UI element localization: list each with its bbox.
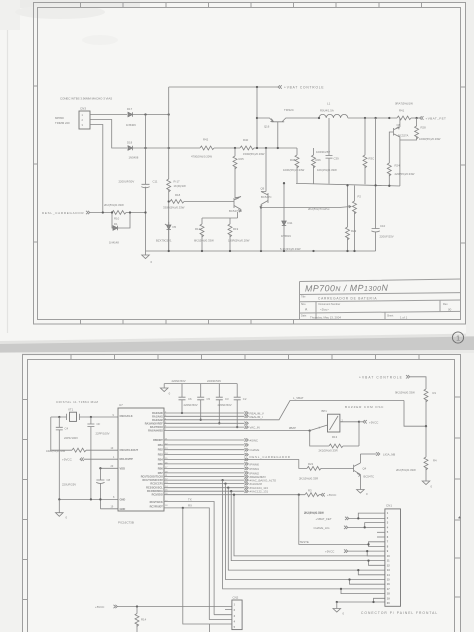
wire R10 to V1 [126, 212, 146, 214]
svg-text:+VBAT CONTROLE: +VBAT CONTROLE [359, 375, 403, 379]
wire Q9 emitter to rail [260, 207, 262, 251]
svg-text:RB6: RB6 [158, 467, 164, 470]
node jog 15 [348, 578, 350, 580]
svg-text:R25: R25 [239, 157, 245, 161]
svg-text:CONEC WTBS 3.96MM MACHO 3 VIAS: CONEC WTBS 3.96MM MACHO 3 VIAS [60, 97, 112, 101]
wire crystal loop left [51, 417, 72, 450]
wire RB6 flag IPWM1 [164, 467, 245, 469]
svg-text:220NF/50V: 220NF/50V [207, 379, 221, 383]
svg-text:RB0/INT: RB0/INT [153, 439, 163, 442]
resistor R17 [167, 179, 186, 192]
wire mid row to trimpot [261, 207, 339, 209]
wire node to R4 [425, 426, 427, 457]
wire Q5 emitter down [237, 212, 239, 218]
svg-text:220UF/25V: 220UF/25V [62, 483, 76, 487]
node x375.6 [374, 117, 376, 119]
wire Q4 collector to flag LIGA_NB [360, 452, 395, 456]
svg-text:22R(5%)/0.33W: 22R(5%)/0.33W [395, 172, 415, 176]
svg-text:R14: R14 [141, 618, 147, 622]
node 257/118 [256, 117, 258, 119]
svg-text:CHAVE: CHAVE [250, 448, 260, 452]
buzzer BP1 [319, 405, 385, 432]
svg-text:TX: TX [188, 497, 192, 501]
wire RC1 flag VAC_BAIXO_ALTO [164, 479, 245, 481]
wire top bus to +VBAT CONTROLE [169, 86, 278, 88]
svg-text:220NF/50V: 220NF/50V [172, 379, 186, 383]
svg-text:150R(5%)/0.33W: 150R(5%)/0.33W [243, 152, 265, 156]
svg-text:RC6/TX/CK: RC6/TX/CK [150, 501, 163, 504]
svg-text:C8: C8 [107, 478, 111, 482]
wire RC7 RX [164, 504, 209, 620]
node R1/R4 [425, 425, 427, 427]
svg-text:R1: R1 [433, 391, 437, 395]
ground rail page1 [146, 250, 376, 252]
svg-text:C39: C39 [334, 157, 340, 161]
svg-text:R3: R3 [308, 489, 312, 493]
node VDD [99, 467, 101, 469]
diode D17 [126, 107, 136, 127]
svg-text:R38: R38 [290, 158, 296, 162]
svg-text:BC547C: BC547C [261, 195, 272, 199]
svg-text:100R(5%)/0.33W: 100R(5%)/0.33W [419, 137, 441, 141]
wire RA4 to flag VAC_IN [164, 425, 260, 429]
rail nodes [58, 498, 101, 500]
svg-text:PIC16C73B: PIC16C73B [118, 521, 134, 525]
resistor R1 [395, 389, 437, 402]
wire RB3 flag [164, 454, 245, 456]
node crystal left [58, 416, 60, 418]
svg-text:+5VCC: +5VCC [369, 420, 378, 424]
svg-text:Title: Title [301, 296, 306, 299]
node TESTE branch [298, 494, 300, 496]
resistor R3 [304, 489, 324, 516]
svg-text:1N5408: 1N5408 [129, 156, 139, 160]
flag +VBAT_FET to CN1 [316, 513, 385, 521]
resistor R4 [396, 457, 437, 472]
node C6/RA0 [181, 412, 183, 414]
svg-text:2K2(5%)/0.33W: 2K2(5%)/0.33W [396, 468, 416, 472]
node jog 11 [367, 559, 369, 561]
stub CN1 pin6 [377, 536, 385, 538]
capacitor C8 [62, 468, 111, 509]
wire RX into CN2 [209, 619, 232, 621]
svg-text:330R(5%)/0.33W: 330R(5%)/0.33W [163, 206, 185, 210]
svg-text:GND: GND [120, 497, 126, 501]
flag +VBAT CONTROLE page2 [359, 375, 410, 379]
svg-text:00: 00 [448, 308, 452, 312]
resistor R14 [135, 607, 147, 632]
wire GND2 row [100, 508, 118, 510]
svg-text:4700(5%)/0.20W: 4700(5%)/0.20W [191, 155, 212, 159]
transistor Q5 [229, 196, 241, 213]
svg-text:100K(5%)/0.33W: 100K(5%)/0.33W [283, 168, 305, 172]
node C39 top [318, 117, 320, 119]
svg-text:VDD: VDD [120, 466, 126, 470]
wire RA0 to flag REALIM_V [164, 411, 264, 415]
svg-text:R29: R29 [351, 229, 357, 233]
svg-text:MP800: MP800 [55, 116, 64, 120]
svg-text:BC547C: BC547C [364, 475, 375, 479]
wire RB2 flag CHAVE [164, 449, 245, 451]
svg-text:D18: D18 [127, 141, 133, 145]
bus vertical 2 to CN1 pins 15/16 [226, 484, 385, 585]
border zone ticks right [455, 397, 461, 597]
resistor R42 [191, 138, 214, 159]
wire CN2 pin5 stub [183, 508, 232, 632]
flag DESL_CARREGADOR [42, 211, 90, 215]
svg-text:RA3/AN3/VREF: RA3/AN3/VREF [145, 422, 164, 425]
node C2/RA4 [236, 426, 238, 428]
node ground drop pin20 [336, 601, 338, 603]
svg-text:RB7: RB7 [158, 472, 164, 475]
svg-text:Thursday, May 13, 2004: Thursday, May 13, 2004 [310, 316, 341, 320]
svg-text:D17: D17 [127, 107, 133, 111]
wire emitter row [202, 217, 238, 219]
capacitor C39 [316, 150, 339, 172]
svg-text:CN3: CN3 [80, 107, 86, 111]
wire flag to R1 [410, 377, 426, 389]
svg-text:+VBAT_FET: +VBAT_FET [426, 117, 447, 121]
wire R42 to R25 node [214, 147, 240, 149]
wire buzzer right lead [340, 421, 359, 423]
svg-text:R40: R40 [243, 138, 249, 142]
svg-text:2K2(5%)/0.33R: 2K2(5%)/0.33R [319, 449, 338, 453]
wire RB5 flag IPWM0 [164, 463, 245, 465]
svg-text:#BZP: #BZP [289, 426, 296, 430]
svg-text:R28: R28 [421, 126, 427, 130]
wire R25 to R38 [254, 147, 297, 149]
RC flag rows with bus taps [164, 475, 277, 494]
svg-text:2K2(5%)/0.33W: 2K2(5%)/0.33W [304, 511, 324, 515]
flag CHAVE_LIG to CN1 [314, 523, 385, 530]
node C5/RA2 [200, 419, 202, 421]
resistor R29 [280, 185, 357, 251]
wire RA2 to L_VBAT [164, 396, 404, 420]
node top drop [256, 86, 258, 88]
flag +5VCC buzzer [359, 420, 378, 424]
wire R4 to ground [425, 468, 427, 481]
svg-text:RB1: RB1 [158, 444, 164, 447]
svg-text:CHAVE_LIG: CHAVE_LIG [314, 526, 331, 530]
CN1 pin numbers [387, 511, 390, 605]
border zone ticks right [461, 87, 466, 243]
node Q16 base bottom [277, 147, 279, 149]
faint red stamp text [55, 116, 70, 125]
node x389.3 [388, 117, 390, 119]
svg-text:220NF/50V: 220NF/50V [184, 403, 198, 407]
ground symbol page1 [142, 251, 153, 264]
svg-text:1N4148: 1N4148 [109, 241, 119, 245]
svg-text:R41: R41 [399, 109, 405, 113]
wire Q9 collector up [265, 148, 267, 192]
inductor L1 [319, 102, 348, 119]
wire Q8 base to R24 vertical [389, 132, 393, 163]
page 1 outer border frame [34, 3, 466, 325]
wire RC0 flag REDE/8MV [164, 476, 245, 478]
svg-text:RC5/SDO: RC5/SDO [152, 494, 163, 497]
node mid row left [260, 206, 262, 208]
resistor R25h [240, 138, 265, 156]
svg-text:MCLR/VPP: MCLR/VPP [120, 457, 134, 461]
svg-text:+5VCC: +5VCC [325, 550, 334, 554]
svg-text:R12: R12 [195, 227, 201, 231]
resistor R19 [228, 218, 250, 251]
svg-text:Q9: Q9 [261, 187, 265, 191]
wire +5VCC to CN2 [118, 606, 232, 608]
svg-text:R18: R18 [175, 193, 181, 197]
node R10/V1 [144, 211, 146, 213]
svg-text:BC547C: BC547C [229, 209, 240, 213]
decoupling cap header wire [164, 383, 237, 385]
svg-text:C5: C5 [207, 397, 211, 401]
diode D18 [127, 141, 139, 160]
capacitor C6 [172, 379, 193, 413]
border zone ticks left [23, 400, 28, 600]
node buzzer left [309, 429, 311, 431]
flag +5VCC bottom left [95, 605, 117, 609]
node D11 top [283, 182, 285, 184]
wire RA5 to buzzer node BZP [164, 426, 310, 430]
node D1 right [129, 211, 131, 213]
svg-text:6K2(5%)/0.33W: 6K2(5%)/0.33W [194, 239, 214, 243]
wire R28 bottom to Q8 collector [400, 137, 417, 140]
capacitor C11 [119, 180, 158, 188]
svg-text:+5VCC: +5VCC [327, 493, 336, 497]
svg-text:2K2(5%)/0.33W: 2K2(5%)/0.33W [104, 203, 124, 207]
node R29 top [346, 184, 348, 186]
circled page number 1 [452, 332, 463, 343]
transistor Q9 [260, 187, 272, 209]
svg-text:1 of 1: 1 of 1 [400, 316, 408, 320]
wire TX into CN2 [214, 614, 232, 616]
resistor R25 vertical [233, 156, 244, 198]
wire CN3 pin2 bend to D18 [90, 120, 127, 149]
node buzzer right [358, 421, 360, 423]
svg-text:Document Number: Document Number [319, 302, 341, 306]
node D1 left [111, 211, 113, 213]
svg-text:RB5: RB5 [158, 463, 164, 466]
bus vertical 4 to CN1 pins 11/12 [231, 491, 385, 565]
border zone ticks top [81, 3, 422, 8]
wire L1 to R41 [348, 117, 397, 119]
svg-text:RX: RX [188, 504, 192, 508]
resistor R41 [395, 102, 413, 121]
wire vertical V2 [168, 87, 170, 251]
svg-text:R3C: R3C [369, 157, 375, 161]
wire Q8 collector down [399, 140, 401, 186]
node bus tap 1 [221, 479, 223, 481]
svg-text:22PF/100V: 22PF/100V [96, 432, 110, 436]
svg-text:IPWM1: IPWM1 [250, 467, 260, 471]
page 1 inner border frame [38, 8, 461, 320]
svg-text:R19: R19 [233, 227, 239, 231]
resistor R10 [104, 203, 126, 221]
node jog 17 [340, 588, 342, 590]
svg-text:CN1: CN1 [386, 504, 392, 508]
svg-text:L_VBAT: L_VBAT [293, 396, 304, 400]
svg-text:RC2/CCP1: RC2/CCP1 [150, 483, 163, 486]
title block column dividers [316, 300, 440, 319]
node V2 row2 [168, 147, 170, 149]
connector CN3 [79, 107, 90, 130]
svg-text:D5: D5 [173, 225, 177, 229]
wire buzzer left lead [310, 425, 328, 431]
node 257/148 [256, 147, 258, 149]
wire RC6 TX [164, 497, 214, 614]
transistor Q8 [393, 118, 408, 140]
resistor RM 10M [46, 448, 86, 453]
U7 right pin numbers [165, 412, 168, 508]
node R14 tap [136, 605, 138, 607]
svg-text:GND: GND [120, 507, 126, 511]
resistor R12 [194, 218, 214, 251]
svg-text:1N5819: 1N5819 [281, 234, 291, 238]
svg-text:R24: R24 [395, 164, 401, 168]
svg-text:C4: C4 [65, 427, 69, 431]
svg-text:CN2: CN2 [233, 596, 239, 600]
node x365 [364, 117, 366, 119]
resistor R22 [299, 462, 321, 481]
svg-text:C6: C6 [188, 397, 192, 401]
wire RA1 to flag REALIM_I [164, 415, 263, 419]
svg-text:CONECTOR P/ PAINEL FRONTAL: CONECTOR P/ PAINEL FRONTAL [361, 611, 438, 615]
diode D1 loop [109, 213, 130, 245]
ground rail page2 left [59, 498, 118, 500]
capacitor C10 [371, 118, 393, 251]
node C3/RA3 [218, 422, 220, 424]
wire R24 bottom [388, 174, 390, 186]
svg-text:CF: CF [97, 422, 101, 426]
rail nodes [168, 250, 356, 252]
page 2 inner border frame [28, 360, 455, 632]
svg-text:RB3: RB3 [158, 454, 164, 457]
border zone ticks left [34, 86, 39, 242]
node C10 cross [374, 184, 376, 186]
RB flag rows [164, 438, 299, 475]
node pin3/DESL [102, 211, 104, 213]
wire RB4 net DESL_CARREGADOR [164, 458, 299, 460]
wire flag to R10 [90, 212, 112, 214]
svg-text:+VBAT CONTROLE: +VBAT CONTROLE [284, 86, 324, 90]
connector CN1 [385, 504, 401, 607]
ground symbol R4 [422, 481, 432, 489]
wire RB7 flag IPWM2 [164, 472, 245, 474]
wire vertical V1 with C11 [145, 115, 147, 252]
node R28 top [415, 117, 417, 119]
wire CN3 pin3 stub [90, 125, 103, 213]
svg-text:1K(R)/1W: 1K(R)/1W [174, 184, 187, 188]
svg-text:R10: R10 [114, 217, 120, 221]
wire vertical C39 [328, 118, 330, 184]
svg-text:Rev: Rev [443, 302, 448, 306]
capacitor C2 [218, 384, 247, 428]
svg-text:CARREGADOR DE BATERIA: CARREGADOR DE BATERIA [318, 297, 377, 301]
border zone ticks top [71, 355, 419, 360]
U7 left pin labels [120, 414, 139, 511]
svg-text:REALIM_I: REALIM_I [250, 415, 263, 419]
svg-text:D1: D1 [114, 222, 118, 226]
wire DESL branch down to R22 [299, 459, 307, 468]
ground symbol cap row [160, 384, 170, 396]
node Q9 collector [265, 147, 267, 149]
svg-text:10MR(5%)/0.33W: 10MR(5%)/0.33W [46, 450, 66, 453]
svg-text:+VBAT_FET: +VBAT_FET [316, 517, 332, 521]
svg-text:L1: L1 [327, 102, 331, 106]
resistor R13 parallel [310, 422, 359, 453]
svg-text:VAC_IN: VAC_IN [250, 426, 260, 430]
svg-text:R26: R26 [316, 158, 322, 162]
svg-text:TIP42C: TIP42C [284, 108, 294, 112]
scan speck on right border [458, 517, 460, 519]
node bus tap 3 [227, 487, 229, 489]
svg-text:OSC1/CLK: OSC1/CLK [120, 414, 133, 418]
stub CN1 pin5 [377, 531, 385, 533]
border zone ticks bottom [81, 320, 294, 325]
U7 right pin labels [141, 412, 164, 509]
node D17/V2 [168, 113, 170, 115]
bus vertical 1 to CN1 pins 17/18 [223, 480, 385, 593]
wire RC2 flag 110/220 [164, 483, 245, 485]
svg-text:0RA7(5%)/1W: 0RA7(5%)/1W [395, 102, 413, 106]
wire RA3 flag [164, 422, 248, 425]
svg-text:Q8: Q8 [397, 123, 401, 127]
svg-text:RB4: RB4 [158, 458, 164, 461]
node V3 [234, 147, 236, 149]
ground symbol Q4 [357, 490, 368, 497]
wire RB1 flag [164, 444, 245, 446]
svg-text:D11: D11 [288, 221, 293, 225]
wire RC3 flag VAC104_113 [164, 487, 245, 489]
wire R41 to flag [411, 117, 420, 119]
node bus tap 2 [224, 482, 226, 484]
trimpot P2 [308, 186, 361, 252]
svg-text:R13: R13 [332, 435, 338, 439]
svg-text:#VAC122_131: #VAC122_131 [250, 490, 269, 494]
resistor R24 [387, 163, 414, 176]
svg-text:Sheet: Sheet [387, 314, 394, 317]
bus vertical 5 to CN1 pin20 ground row [337, 598, 385, 602]
svg-text:RC7/RX/DT: RC7/RX/DT [150, 506, 164, 509]
resistor R18 [163, 193, 185, 210]
node bus tap 4 [230, 490, 232, 492]
svg-text:9K2(5%)/0.33W: 9K2(5%)/0.33W [395, 391, 415, 395]
svg-text:C11: C11 [153, 180, 158, 184]
wire CN3 pin1 to D17 [90, 114, 127, 116]
flag +5VCC to MCLR [62, 458, 118, 462]
svg-text:22PF/100V: 22PF/100V [64, 436, 78, 440]
svg-text:100R(5%)/0.20W: 100R(5%)/0.20W [228, 239, 250, 243]
svg-text:10K(3%)/0.33W: 10K(3%)/0.33W [317, 168, 337, 172]
flag +VBAT_FET [420, 116, 447, 120]
ground symbol CN1 [333, 602, 345, 616]
scanner edge streak page1 [7, 0, 9, 333]
svg-text:DESL_CARREGADOR: DESL_CARREGADOR [250, 455, 291, 459]
svg-text:RB2: RB2 [158, 449, 164, 452]
IC U7 PIC16C73B body [118, 403, 164, 525]
svg-text:1N5406: 1N5406 [126, 123, 136, 127]
title block outline [300, 279, 462, 320]
svg-text:2200UF/50V: 2200UF/50V [119, 180, 135, 184]
capacitor C3 [207, 379, 229, 423]
resistor R38 [283, 148, 305, 183]
resistor R26 [312, 148, 322, 184]
svg-text:Size: Size [301, 303, 306, 306]
node R18 left [168, 200, 170, 202]
svg-text:+5VCC: +5VCC [62, 458, 73, 462]
svg-text:C2: C2 [243, 397, 247, 401]
bus vertical 5 to CN1 pin 10 [234, 495, 385, 556]
svg-text:R0U4/1.5A: R0U4/1.5A [320, 109, 334, 113]
